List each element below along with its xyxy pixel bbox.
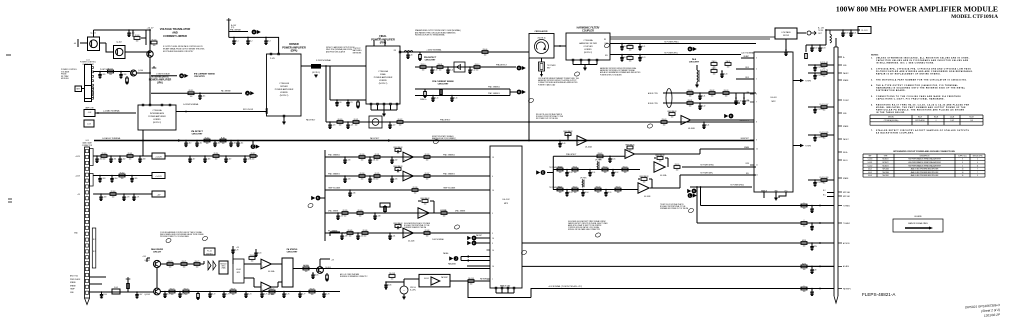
svg-text:100: 100 xyxy=(629,61,632,63)
svg-text:C-139: C-139 xyxy=(343,236,347,238)
capacitor C-168 xyxy=(139,155,141,157)
svg-text:1: 1 xyxy=(804,202,805,204)
resistor R-162 xyxy=(119,172,125,180)
wire xyxy=(147,257,150,259)
resistor R4-77 xyxy=(269,288,275,296)
wire filter RF out xyxy=(610,36,775,38)
resistor R4-58 xyxy=(595,186,601,194)
svg-text:MC33072: MC33072 xyxy=(882,159,888,161)
svg-text:FL-03: FL-03 xyxy=(114,287,118,289)
box window comparator xyxy=(419,274,450,287)
resistor R-146 xyxy=(362,230,368,238)
capacitor C-21 xyxy=(347,99,349,101)
resistor R-164 xyxy=(110,191,116,199)
capacitor C4-2 xyxy=(247,37,249,39)
capacitor C4-12 xyxy=(469,66,471,68)
svg-text:100: 100 xyxy=(311,294,314,296)
svg-text:FILTER: FILTER xyxy=(783,35,790,37)
wire FB stub xyxy=(736,68,754,70)
connector J-03 pin box 7 xyxy=(85,185,88,188)
svg-text:R4-33: R4-33 xyxy=(724,90,729,92)
capacitor C4-78 xyxy=(323,291,325,293)
op-amp U4-100B xyxy=(681,116,691,125)
svg-text:100: 100 xyxy=(136,41,139,43)
wire PS 1 sense row xyxy=(325,232,490,234)
svg-text:R4-72: R4-72 xyxy=(195,261,200,263)
svg-text:100: 100 xyxy=(604,172,607,174)
page edge mark xyxy=(8,199,12,202)
svg-text:100: 100 xyxy=(559,172,562,174)
svg-text:R4-43: R4-43 xyxy=(662,119,667,121)
wire FPA pin bus xyxy=(371,109,397,111)
connector J-03 pin box 17 xyxy=(85,244,88,247)
connector J-03 pin box 19 xyxy=(85,256,88,259)
legend box xyxy=(893,216,943,232)
resistor R4-71 xyxy=(181,261,187,269)
capacitor C4-80 xyxy=(255,252,257,254)
wire IPA bottom lead xyxy=(142,130,144,141)
svg-text:(NOTE 2): (NOTE 2) xyxy=(584,52,592,54)
IC analog multiplexer U4-102 xyxy=(490,146,522,288)
resistor R-147 feedback xyxy=(393,222,403,231)
resistor R-110 xyxy=(204,137,210,145)
capacitor C-113 xyxy=(230,140,232,142)
IPA pin xyxy=(142,104,144,106)
svg-text:CPL RES: CPL RES xyxy=(580,178,586,180)
svg-text:R-COL-73: R-COL-73 xyxy=(820,70,828,72)
wire xyxy=(696,82,698,85)
revision balloon xyxy=(688,208,694,214)
svg-text:100: 100 xyxy=(206,143,209,145)
resistor R4-12 xyxy=(474,64,480,72)
wire PA alarm xyxy=(467,265,490,267)
connector J4-02 pin SEL A xyxy=(838,151,842,153)
svg-text:100: 100 xyxy=(713,74,716,76)
wire FPA supply stub 2 xyxy=(384,40,386,46)
capacitor C4-73 xyxy=(223,291,225,293)
resistor R-col-135 xyxy=(820,132,829,140)
svg-text:PA DETECT: PA DETECT xyxy=(306,119,315,122)
revision balloon xyxy=(454,224,460,230)
connector J-03 pin box 9 xyxy=(85,197,88,200)
wire T4-1 top xyxy=(696,65,698,70)
svg-text:PPA DETECT: PPA DETECT xyxy=(566,153,576,156)
wire xyxy=(383,110,385,114)
svg-text:R-105: R-105 xyxy=(108,68,113,70)
resistor R4-57 xyxy=(572,186,578,194)
svg-text:100: 100 xyxy=(643,182,646,184)
capacitor C-171 xyxy=(133,193,135,195)
svg-text:C4-70: C4-70 xyxy=(166,294,170,296)
svg-text:CPL RES: CPL RES xyxy=(595,160,601,162)
wire shunt xyxy=(440,89,442,96)
svg-text:R-116: R-116 xyxy=(214,153,219,155)
svg-text:U4-105: U4-105 xyxy=(424,278,429,280)
transistor Q-103 xyxy=(147,51,153,57)
node J PA fail marker xyxy=(449,256,458,261)
resistor R4-31 xyxy=(687,100,693,108)
capacitor C-fan-TO FAN 2 xyxy=(811,222,813,224)
resistor PA-11 xyxy=(725,60,731,69)
svg-text:100: 100 xyxy=(671,117,674,119)
wire FB stub 2 xyxy=(736,78,754,80)
svg-text:PPA DETECT: PPA DETECT xyxy=(440,119,450,122)
node A PPA 1 sense marker xyxy=(252,30,261,35)
wire xyxy=(510,91,517,93)
capacitor C4-34 xyxy=(743,97,745,99)
wire feedback xyxy=(397,169,399,172)
capacitor C-40 xyxy=(407,51,409,53)
svg-text:74HC4051: 74HC4051 xyxy=(882,175,889,177)
antenna connector J4-1 xyxy=(807,31,816,35)
capacitor C4-51 xyxy=(589,169,591,171)
svg-text:MAIN RF SIGNAL PATH: MAIN RF SIGNAL PATH xyxy=(908,222,928,225)
svg-text:R-COL-65: R-COL-65 xyxy=(820,62,828,64)
node junction xyxy=(696,186,698,188)
wire NC stub 2 xyxy=(827,196,834,198)
resistor R4-75 xyxy=(196,292,199,300)
wire xyxy=(277,282,279,287)
wire xyxy=(318,197,325,199)
wire PA 1 sense row xyxy=(151,92,242,94)
capacitor C-130 xyxy=(344,156,346,158)
IPA pin xyxy=(161,104,163,106)
connector J-01 pin 4 xyxy=(92,80,94,82)
node junction xyxy=(819,205,821,207)
wire opamp out xyxy=(691,119,754,121)
connector J-03 pin box 20 xyxy=(85,262,88,265)
resistor R-120 xyxy=(337,119,343,127)
svg-text:FEEDBACK: FEEDBACK xyxy=(625,143,635,146)
svg-text:100: 100 xyxy=(339,125,342,127)
connector J-03 pin box 8 xyxy=(85,191,88,194)
svg-text:TX POWER (FWD): TX POWER (FWD) xyxy=(664,41,679,43)
wire xyxy=(320,258,330,260)
svg-text:100: 100 xyxy=(169,267,172,269)
connector J-03 pin box 10 xyxy=(85,203,88,206)
svg-text:POWER AMPLIFIER: POWER AMPLIFIER xyxy=(275,88,294,91)
svg-text:(NOTE 3): (NOTE 3) xyxy=(312,72,320,74)
svg-text:C-170: C-170 xyxy=(125,197,129,199)
U4-102 input pin xyxy=(487,156,491,158)
box FL-101 filter xyxy=(858,27,871,34)
wire xyxy=(385,282,387,290)
svg-text:INTEGRATED CIRCUIT POWER AN: INTEGRATED CIRCUIT POWER AND GROUND CONN… xyxy=(893,150,955,153)
revision balloon xyxy=(528,98,534,104)
IPA pin xyxy=(149,104,151,106)
arrow out 2 xyxy=(800,144,804,147)
svg-text:C-20: C-20 xyxy=(338,102,341,104)
svg-text:FEEDBACK: FEEDBACK xyxy=(639,175,649,178)
op-amp U4-101A xyxy=(403,152,413,162)
capacitor C-169 xyxy=(100,193,102,195)
resistor R4-20 xyxy=(627,44,633,52)
resistor R4-65 xyxy=(597,153,603,161)
wire MPX out 2 xyxy=(244,277,254,279)
svg-text:U4-100A: U4-100A xyxy=(585,146,593,149)
node E TX power xyxy=(536,170,545,175)
U4-03 input pin FWD xyxy=(750,164,754,166)
wire PPA detect row mid xyxy=(553,155,625,157)
svg-text:100: 100 xyxy=(803,226,806,228)
capacitor C4-33 xyxy=(735,97,737,99)
resistor R-col-65 xyxy=(820,62,828,70)
svg-text:R-115: R-115 xyxy=(189,90,194,92)
svg-text:100: 100 xyxy=(823,138,826,140)
svg-text:TO MPX: TO MPX xyxy=(805,146,812,148)
load resistor AT4-2 termination xyxy=(539,62,545,71)
wire feedback xyxy=(418,200,421,202)
wire R-103 top lead xyxy=(132,30,134,37)
capacitor C-120A xyxy=(244,155,246,157)
svg-text:C-117: C-117 xyxy=(191,159,195,161)
svg-text:100: 100 xyxy=(252,159,255,161)
resistor PA-12 xyxy=(711,67,717,76)
svg-text:PA 1 SENSE: PA 1 SENSE xyxy=(221,90,232,93)
svg-text:R-COL-135: R-COL-135 xyxy=(820,132,829,134)
svg-text:CTF0008A: CTF0008A xyxy=(583,39,593,42)
svg-text:PA-10: PA-10 xyxy=(712,60,717,63)
wire Q-101 to Q-102 xyxy=(100,42,107,44)
capacitor C-122 xyxy=(389,121,391,123)
box +5V supply xyxy=(152,191,165,197)
node junction xyxy=(185,111,187,113)
capacitor C4-1 xyxy=(233,37,235,39)
svg-text:10: 10 xyxy=(492,266,494,268)
svg-text:U4-102: U4-102 xyxy=(868,165,873,167)
capacitor C-164 xyxy=(111,175,113,177)
svg-text:C4-90: C4-90 xyxy=(844,33,848,35)
svg-text:PA STATUSCIRCUITRY: PA STATUSCIRCUITRY xyxy=(287,248,298,254)
svg-text:100: 100 xyxy=(426,179,429,181)
svg-text:P1 MET: P1 MET xyxy=(843,100,849,102)
svg-text:R4-50: R4-50 xyxy=(558,166,563,168)
connector J-01 pin 5 xyxy=(92,84,94,86)
wire PA fail A xyxy=(461,256,490,258)
wire R-103 right lead xyxy=(141,37,146,39)
wire circulator load lead xyxy=(541,58,543,62)
svg-text:HYBRID: HYBRID xyxy=(153,119,161,121)
svg-text:Q-104: Q-104 xyxy=(138,70,143,72)
wire circulator column down xyxy=(528,58,530,141)
resistor R-111 xyxy=(220,137,226,145)
wire xyxy=(743,93,745,98)
wire tag drop xyxy=(252,141,254,145)
wire U4-03 vcc jog xyxy=(779,192,786,198)
node junction xyxy=(467,280,469,282)
resistor R4-21 xyxy=(627,55,633,63)
svg-text:100: 100 xyxy=(823,110,826,112)
capacitor C-col-107 xyxy=(814,106,816,108)
svg-text:RFL: RFL xyxy=(605,55,608,57)
wire circulator to filter xyxy=(554,45,566,47)
wire to antenna xyxy=(797,32,806,34)
svg-text:FEEDBACK: FEEDBACK xyxy=(393,222,403,225)
svg-text:(+12dBm NOMINAL: (+12dBm NOMINAL xyxy=(103,110,120,113)
svg-text:U4-03: U4-03 xyxy=(868,175,872,177)
svg-text:R-160: R-160 xyxy=(102,153,107,155)
node junction xyxy=(528,140,530,142)
IC analog multiplexer U4-03 xyxy=(754,52,793,192)
resistor R4-73 xyxy=(169,288,175,296)
wire column feed xyxy=(835,38,837,47)
svg-text:R4-76: R4-76 xyxy=(231,288,236,290)
svg-text:C-40: C-40 xyxy=(409,55,412,57)
resistor R-fan-AC ALM xyxy=(801,262,807,271)
wire xyxy=(584,65,586,69)
svg-text:C4-12: C4-12 xyxy=(471,70,475,72)
U4-03 input pin RFL xyxy=(750,174,754,176)
svg-text:(NOTE 6): (NOTE 6) xyxy=(206,253,213,255)
svg-text:CTF0000A: CTF0000A xyxy=(152,109,162,112)
IC comparator U4-01 xyxy=(233,259,244,283)
capacitor C4-21 xyxy=(639,43,641,45)
op-amp U4-100A xyxy=(577,136,587,146)
wire DPA output detect tap xyxy=(325,66,327,122)
wire meter lead xyxy=(403,279,405,286)
detector module Z-1 xyxy=(369,116,382,128)
revision balloon xyxy=(604,43,610,49)
node junction xyxy=(149,29,151,31)
svg-text:14: 14 xyxy=(492,190,494,192)
capacitor C4-3 xyxy=(265,37,267,39)
resistor R4-106 xyxy=(303,265,309,273)
resistor R4-55 xyxy=(674,164,680,172)
wire MPX feed xyxy=(232,246,234,264)
resistor R4-51 xyxy=(572,166,578,174)
capacitor C4-16 xyxy=(451,95,453,97)
wire xyxy=(329,232,331,236)
svg-text:R4-21: R4-21 xyxy=(628,55,633,57)
wire FPA pin lead xyxy=(370,105,372,110)
capacitor C4-94 xyxy=(785,49,787,51)
wire A bus ctrl xyxy=(663,92,756,94)
svg-text:C4-1: C4-1 xyxy=(235,41,238,43)
svg-text:100: 100 xyxy=(803,269,806,271)
resistor R4-06 xyxy=(482,49,488,57)
svg-text:C-131: C-131 xyxy=(371,160,375,162)
svg-text:R-117: R-117 xyxy=(251,153,256,155)
table harmonic filter models xyxy=(870,115,983,125)
capacitor C-121 xyxy=(347,121,349,123)
wire xyxy=(665,157,668,159)
svg-text:100: 100 xyxy=(196,267,199,269)
U4-102 input pin xyxy=(487,237,491,239)
svg-text:NOTES:: NOTES: xyxy=(871,55,879,57)
resistor R4-10 xyxy=(420,64,426,72)
svg-text:GROUND (PIN): GROUND (PIN) xyxy=(973,155,983,157)
wire Q4-104 collector xyxy=(319,259,321,267)
wire PPA 1 sense B row xyxy=(325,175,490,177)
revision balloon xyxy=(647,123,653,129)
svg-text:100: 100 xyxy=(823,183,826,185)
svg-text:MODEL: MODEL xyxy=(888,117,894,119)
resistor R-116 xyxy=(213,153,219,161)
node K marker xyxy=(687,189,696,194)
svg-text:+14.2V: +14.2V xyxy=(155,156,162,158)
svg-text:3.THE MOTOROLA PART NUMBER FOR: 3.THE MOTOROLA PART NUMBER FOR THE CIRCU… xyxy=(871,78,967,81)
wire +14V distribution xyxy=(165,155,258,157)
svg-text:C-130: C-130 xyxy=(346,160,350,162)
wire FPA I sense B xyxy=(415,95,510,97)
svg-text:C-120: C-120 xyxy=(331,125,335,127)
box +14V supply xyxy=(152,153,165,159)
capacitor C4-79 xyxy=(232,249,234,251)
svg-text:FEEDBACK: FEEDBACK xyxy=(655,154,665,157)
svg-text:100: 100 xyxy=(190,96,193,98)
svg-text:+100W NOMINAL: +100W NOMINAL xyxy=(426,49,441,52)
wire IPA output xyxy=(176,111,230,113)
node G PA fail xyxy=(467,236,476,241)
svg-text:100: 100 xyxy=(476,70,479,72)
svg-text:14: 14 xyxy=(492,238,494,240)
resistor R-139 xyxy=(342,210,348,218)
svg-text:R4-55: R4-55 xyxy=(675,164,680,166)
svg-text:FEEDBACK: FEEDBACK xyxy=(667,110,677,113)
svg-text:Q4-104: Q4-104 xyxy=(325,267,331,269)
svg-text:LOW PASS: LOW PASS xyxy=(781,31,791,34)
svg-text:C-122: C-122 xyxy=(391,125,395,127)
svg-text:100: 100 xyxy=(361,179,364,181)
svg-text:100: 100 xyxy=(399,125,402,127)
svg-text:1: 1 xyxy=(804,285,805,287)
wire U4-102 bottom lead xyxy=(501,289,503,293)
svg-text:C4-08: C4-08 xyxy=(950,117,954,119)
svg-text:RF: RF xyxy=(604,39,606,41)
svg-text:C4-3: C4-3 xyxy=(267,41,270,43)
svg-text:100: 100 xyxy=(823,76,826,78)
svg-text:C4-93: C4-93 xyxy=(821,48,825,50)
svg-text:C4-10: C4-10 xyxy=(433,70,437,72)
svg-text:C-106: C-106 xyxy=(122,74,126,76)
wire PA status bus to MPX xyxy=(293,268,490,270)
capacitor C-col-65 xyxy=(814,64,816,66)
wire FPA bias row xyxy=(330,99,366,101)
svg-text:C-162: C-162 xyxy=(121,159,125,161)
svg-text:B+ (2PL): B+ (2PL) xyxy=(410,289,416,291)
resistor R-40 to ground xyxy=(418,52,421,60)
connector J-03 self test xyxy=(84,120,94,127)
wire U4-03 enable lead xyxy=(763,192,765,198)
capacitor C-fan-AC ALM xyxy=(811,266,813,268)
connector J4-02 pin AC MON xyxy=(838,242,842,244)
resistor R-117 xyxy=(250,153,256,161)
resistor R4-109 xyxy=(468,278,474,286)
wire DPA output xyxy=(301,65,366,67)
svg-text:C4-41: C4-41 xyxy=(705,125,709,127)
wire PA fail B xyxy=(461,260,490,262)
revision balloon xyxy=(202,236,208,242)
svg-text:(NOTE 2): (NOTE 2) xyxy=(280,95,289,97)
resistor R-col-73 xyxy=(820,70,828,78)
wire xyxy=(735,93,737,98)
ground circulator load arrow xyxy=(540,74,543,77)
wire fan lower row xyxy=(160,291,340,293)
resistor R-143 feedback xyxy=(420,197,430,206)
wire op-amp block bracket xyxy=(324,150,326,241)
wire xyxy=(654,157,656,159)
capacitor C4-92 xyxy=(811,44,813,46)
svg-text:C4-55: C4-55 xyxy=(607,192,611,194)
resistor R4-107 xyxy=(325,273,328,281)
wire xyxy=(404,278,419,280)
connector J4-02 pin P1 MET xyxy=(838,99,842,101)
svg-text:POWER AMPLIFIER: POWER AMPLIFIER xyxy=(374,76,393,79)
box divider R-142 xyxy=(380,203,390,207)
svg-text:R4-80: R4-80 xyxy=(250,255,255,257)
svg-text:R-122: R-122 xyxy=(398,119,403,121)
resistor R4-70 xyxy=(167,261,173,269)
